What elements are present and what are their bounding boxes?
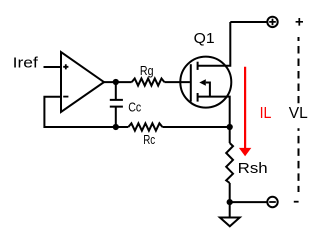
transistor Q1 drain lead	[198, 22, 231, 66]
transistor Q1 source contact tick	[197, 93, 199, 102]
current arrow IL	[244, 67, 246, 148]
resistor Rg	[132, 79, 165, 86]
svg-text:VL: VL	[289, 105, 308, 122]
wire drain to positive terminal	[230, 21, 267, 23]
op-amp plus input symbol	[63, 64, 68, 69]
resistor Rc	[128, 123, 162, 130]
wire node down to capacitor	[115, 82, 117, 100]
label +	[296, 18, 303, 26]
op-amp minus input symbol	[63, 96, 68, 98]
wire capacitor to bottom node	[115, 107, 117, 127]
resistor Rsh	[226, 143, 233, 183]
svg-text:Rc: Rc	[143, 132, 155, 147]
svg-text:Rsh: Rsh	[238, 160, 268, 177]
ground	[220, 218, 240, 227]
dashed line VL top	[298, 37, 300, 103]
svg-text:IL: IL	[260, 105, 272, 122]
wire Iref to op-amp + input	[44, 66, 62, 68]
transistor Q1 body circle	[180, 57, 231, 108]
transistor Q1 gate bar	[190, 64, 192, 101]
transistor Q1 drain contact tick	[197, 62, 199, 70]
transistor Q1 body arrow	[199, 79, 206, 85]
wire op-amp output	[104, 81, 132, 83]
capacitor Cc	[110, 100, 123, 107]
svg-text:Rg: Rg	[140, 63, 154, 78]
negative terminal	[267, 197, 277, 207]
svg-text:Q1: Q1	[194, 30, 215, 47]
transistor Q1 source lead	[198, 97, 230, 127]
wire Rsh to ground node	[229, 183, 231, 217]
op-amp U1	[61, 52, 104, 112]
dashed line VL bottom	[298, 128, 300, 192]
node junction source/Rc	[227, 124, 233, 130]
positive terminal	[267, 17, 277, 27]
svg-text:Cc: Cc	[128, 100, 141, 115]
wire Rc to source node	[162, 126, 229, 128]
node junction bottom left	[113, 124, 119, 130]
node junction bottom	[227, 199, 233, 205]
node junction at output	[113, 79, 119, 85]
wire node to negative terminal	[230, 201, 267, 203]
wire node to Rsh	[229, 127, 231, 143]
svg-text:Iref: Iref	[13, 55, 39, 72]
wire Rg to gate	[164, 81, 190, 83]
wire op-amp minus input feedback	[44, 97, 128, 127]
label - (VL minus)	[294, 201, 299, 203]
